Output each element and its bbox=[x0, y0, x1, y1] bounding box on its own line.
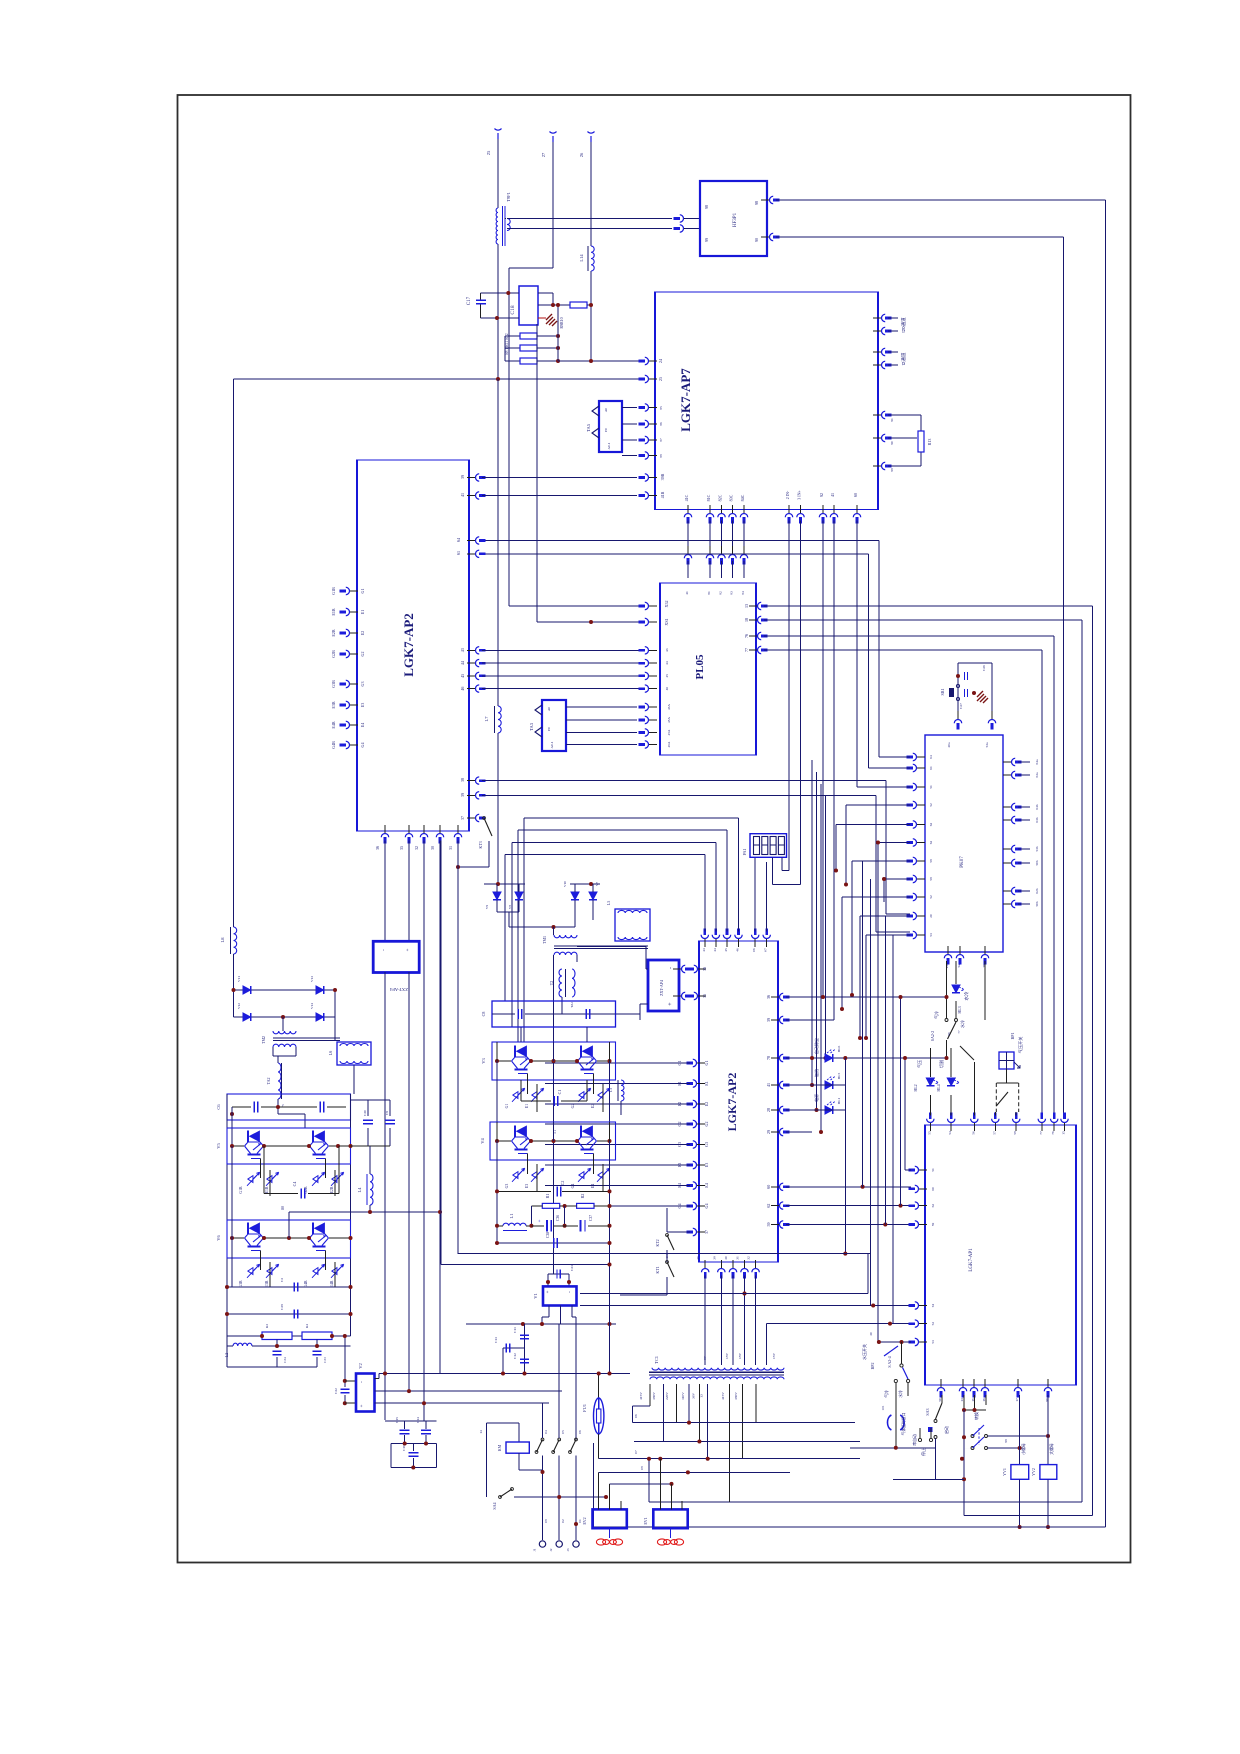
svg-text:HL6: HL6 bbox=[837, 1046, 841, 1053]
svg-text:RV1 R11 R12: RV1 R11 R12 bbox=[505, 333, 509, 354]
svg-text:t20通道: t20通道 bbox=[900, 317, 907, 333]
svg-text:24: 24 bbox=[658, 359, 663, 363]
svg-text:83C: 83C bbox=[729, 494, 734, 501]
svg-text:G1: G1 bbox=[704, 1061, 709, 1066]
svg-text:27: 27 bbox=[541, 152, 546, 157]
svg-text:C33: C33 bbox=[323, 1357, 327, 1363]
svg-text:+: + bbox=[406, 948, 411, 951]
svg-text:气体延时接口: 气体延时接口 bbox=[901, 1412, 906, 1435]
svg-text:26: 26 bbox=[579, 152, 584, 157]
svg-text:14: 14 bbox=[479, 1430, 483, 1434]
svg-text:56: 56 bbox=[971, 1131, 975, 1135]
svg-text:V3: V3 bbox=[481, 1058, 486, 1064]
svg-text:E3: E3 bbox=[704, 1163, 709, 1167]
svg-text:38: 38 bbox=[712, 1256, 716, 1260]
svg-text:57: 57 bbox=[992, 1131, 996, 1135]
svg-text:36: 36 bbox=[766, 995, 771, 999]
svg-text:气压开关: 气压开关 bbox=[1017, 1037, 1024, 1054]
svg-text:62: 62 bbox=[929, 841, 933, 845]
svg-text:30: 30 bbox=[869, 1332, 873, 1336]
svg-text:415V: 415V bbox=[721, 1392, 725, 1400]
svg-text:E4B: E4B bbox=[330, 1280, 334, 1287]
svg-text:V12: V12 bbox=[237, 1003, 241, 1009]
svg-text:82C: 82C bbox=[718, 494, 723, 501]
svg-text:41: 41 bbox=[460, 493, 465, 497]
svg-text:38: 38 bbox=[460, 778, 465, 782]
svg-text:04: 04 bbox=[544, 1430, 548, 1434]
svg-text:水冷: 水冷 bbox=[963, 991, 970, 1000]
svg-text:52: 52 bbox=[929, 803, 933, 807]
svg-text:41: 41 bbox=[685, 591, 689, 595]
svg-text:64b: 64b bbox=[1035, 804, 1039, 810]
svg-text:T2: T2 bbox=[549, 981, 554, 985]
svg-text:36V: 36V bbox=[691, 1393, 695, 1400]
svg-text:29: 29 bbox=[766, 1130, 771, 1134]
svg-text:35: 35 bbox=[702, 994, 707, 998]
svg-text:05: 05 bbox=[561, 1430, 565, 1434]
svg-text:C2: C2 bbox=[560, 1181, 565, 1186]
svg-text:V13: V13 bbox=[310, 976, 314, 982]
svg-text:电源: 电源 bbox=[813, 1094, 819, 1102]
svg-text:BP2: BP2 bbox=[870, 1363, 875, 1370]
svg-text:PK07: PK07 bbox=[960, 856, 965, 868]
svg-text:G2B: G2B bbox=[331, 650, 336, 658]
svg-text:07: 07 bbox=[764, 948, 768, 952]
svg-text:30: 30 bbox=[430, 846, 435, 850]
svg-text:KT2: KT2 bbox=[655, 1239, 660, 1246]
svg-text:50: 50 bbox=[938, 1398, 942, 1402]
svg-text:KT3: KT3 bbox=[478, 841, 483, 848]
svg-text:90: 90 bbox=[890, 441, 894, 445]
svg-text:13: 13 bbox=[960, 1398, 964, 1402]
svg-text:SA2-2: SA2-2 bbox=[930, 1031, 935, 1041]
svg-text:C39: C39 bbox=[280, 1304, 284, 1310]
svg-text:E1: E1 bbox=[704, 1081, 709, 1085]
svg-text:G3B: G3B bbox=[331, 680, 336, 688]
svg-text:44: 44 bbox=[665, 661, 669, 665]
svg-text:C37: C37 bbox=[589, 1215, 593, 1221]
svg-text:62: 62 bbox=[766, 1204, 771, 1208]
svg-text:C12: C12 bbox=[513, 1353, 517, 1359]
svg-text:64a: 64a bbox=[1035, 759, 1039, 765]
svg-text:18V: 18V bbox=[725, 1353, 729, 1360]
svg-text:98: 98 bbox=[704, 205, 709, 209]
svg-text:25: 25 bbox=[486, 150, 491, 155]
svg-text:59: 59 bbox=[766, 1223, 771, 1227]
svg-text:380V: 380V bbox=[652, 1392, 656, 1400]
svg-text:52: 52 bbox=[931, 1322, 935, 1326]
svg-text:G4B: G4B bbox=[304, 1280, 308, 1288]
svg-text:36: 36 bbox=[702, 967, 707, 971]
svg-text:53: 53 bbox=[931, 1340, 935, 1344]
svg-text:串自动: 串自动 bbox=[912, 1434, 917, 1446]
svg-text:45: 45 bbox=[665, 674, 669, 678]
svg-text:R4: R4 bbox=[305, 1324, 309, 1328]
svg-text:98: 98 bbox=[754, 201, 759, 205]
svg-text:PL05: PL05 bbox=[694, 654, 706, 680]
svg-text:HL1: HL1 bbox=[837, 1098, 841, 1105]
svg-text:HL2: HL2 bbox=[913, 1084, 918, 1091]
svg-text:L5: L5 bbox=[606, 901, 611, 905]
svg-text:30: 30 bbox=[724, 1256, 728, 1260]
svg-text:25: 25 bbox=[658, 377, 663, 381]
svg-text:60: 60 bbox=[931, 1187, 935, 1191]
svg-text:02: 02 bbox=[561, 1519, 565, 1523]
svg-text:C30: C30 bbox=[363, 1110, 367, 1116]
svg-text:41C: 41C bbox=[684, 494, 689, 501]
svg-text:气冷: 气冷 bbox=[884, 1390, 889, 1398]
svg-text:59: 59 bbox=[931, 1223, 935, 1227]
svg-text:V7: V7 bbox=[595, 882, 599, 887]
svg-text:08: 08 bbox=[544, 1519, 548, 1523]
svg-text:EV2: EV2 bbox=[582, 1517, 587, 1524]
svg-text:t2通道: t2通道 bbox=[900, 352, 907, 365]
svg-text:28: 28 bbox=[766, 1108, 771, 1112]
svg-text:54: 54 bbox=[948, 1131, 952, 1135]
svg-text:G4B: G4B bbox=[331, 741, 336, 749]
svg-text:R3: R3 bbox=[265, 1324, 269, 1328]
svg-text:2 IN-: 2 IN- bbox=[785, 490, 790, 499]
svg-text:39: 39 bbox=[460, 475, 465, 479]
svg-text:E4: E4 bbox=[360, 723, 365, 727]
svg-text:39: 39 bbox=[766, 1018, 771, 1022]
svg-text:G1: G1 bbox=[505, 1104, 509, 1109]
svg-text:C33: C33 bbox=[570, 1265, 574, 1271]
svg-text:E4B: E4B bbox=[331, 721, 336, 728]
svg-text:C3: C3 bbox=[280, 1278, 284, 1282]
svg-text:E2: E2 bbox=[360, 631, 365, 635]
svg-text:58: 58 bbox=[1013, 1131, 1017, 1135]
svg-text:LGK7-AP1: LGK7-AP1 bbox=[969, 1248, 974, 1272]
svg-text:99: 99 bbox=[1004, 1439, 1008, 1443]
svg-text:SA4: SA4 bbox=[492, 1502, 497, 1509]
svg-text:G3: G3 bbox=[704, 1142, 709, 1147]
svg-text:YV1: YV1 bbox=[1002, 1468, 1007, 1476]
svg-text:78: 78 bbox=[766, 1056, 771, 1060]
svg-text:61: 61 bbox=[931, 1304, 935, 1308]
svg-text:96: 96 bbox=[947, 1032, 951, 1036]
svg-text:15V: 15V bbox=[772, 1353, 776, 1360]
svg-text:HL3: HL3 bbox=[957, 1006, 962, 1013]
svg-text:C34: C34 bbox=[283, 1357, 287, 1363]
svg-text:81: 81 bbox=[707, 591, 711, 595]
svg-text:85: 85 bbox=[659, 406, 663, 410]
svg-text:61: 61 bbox=[929, 766, 933, 770]
svg-text:G2: G2 bbox=[704, 1122, 709, 1127]
svg-text:G1B: G1B bbox=[331, 587, 336, 595]
svg-text:84: 84 bbox=[741, 591, 745, 595]
svg-text:加热: 加热 bbox=[813, 1069, 819, 1077]
svg-text:C16: C16 bbox=[402, 1445, 406, 1451]
svg-text:V10: V10 bbox=[563, 881, 567, 887]
svg-text:110V: 110V bbox=[681, 1392, 685, 1400]
svg-text:60: 60 bbox=[766, 1185, 771, 1189]
svg-text:46: 46 bbox=[460, 687, 465, 691]
svg-text:31: 31 bbox=[736, 1256, 740, 1260]
svg-text:A0: A0 bbox=[547, 707, 551, 712]
svg-text:84C: 84C bbox=[740, 494, 745, 501]
svg-text:L8: L8 bbox=[220, 937, 225, 943]
svg-text:35: 35 bbox=[696, 1256, 700, 1260]
svg-text:R9R10: R9R10 bbox=[559, 317, 564, 328]
svg-text:YV2: YV2 bbox=[1031, 1468, 1036, 1476]
svg-text:G4: G4 bbox=[571, 1184, 575, 1189]
svg-text:380V: 380V bbox=[734, 1392, 738, 1400]
svg-text:LGK7-AP2: LGK7-AP2 bbox=[401, 613, 416, 677]
svg-text:88: 88 bbox=[659, 454, 663, 458]
svg-text:E3: E3 bbox=[525, 1184, 529, 1188]
svg-text:C15: C15 bbox=[395, 1417, 399, 1423]
svg-text:水冷: 水冷 bbox=[898, 1390, 903, 1398]
svg-text:G2: G2 bbox=[360, 652, 365, 657]
svg-text:转换: 转换 bbox=[973, 1412, 979, 1420]
svg-text:41: 41 bbox=[766, 1083, 771, 1087]
svg-text:99: 99 bbox=[704, 238, 709, 242]
svg-text:415V: 415V bbox=[639, 1392, 643, 1400]
svg-text:R2: R2 bbox=[580, 1194, 585, 1199]
svg-text:TAl: TAl bbox=[570, 1002, 574, 1007]
svg-text:51: 51 bbox=[931, 1168, 935, 1172]
svg-text:C36: C36 bbox=[556, 1215, 560, 1221]
svg-text:TA5: TA5 bbox=[586, 423, 591, 432]
svg-text:45A: 45A bbox=[667, 717, 671, 723]
svg-text:小螺母: 小螺母 bbox=[1021, 1443, 1026, 1455]
svg-text:60: 60 bbox=[853, 493, 858, 497]
svg-text:91: 91 bbox=[890, 418, 894, 422]
svg-text:G3: G3 bbox=[505, 1184, 509, 1189]
svg-text:切割: 切割 bbox=[938, 1060, 944, 1068]
svg-text:45: 45 bbox=[460, 674, 465, 678]
svg-text:63a: 63a bbox=[1035, 772, 1039, 778]
svg-text:62b: 62b bbox=[1035, 888, 1039, 894]
svg-text:SB1: SB1 bbox=[940, 689, 945, 696]
svg-text:ZXT-AP4: ZXT-AP4 bbox=[659, 980, 664, 996]
svg-text:C14: C14 bbox=[416, 1417, 420, 1423]
svg-text:+: + bbox=[546, 1290, 551, 1293]
svg-text:X52: X52 bbox=[664, 601, 669, 608]
svg-text:G3B: G3B bbox=[239, 1280, 243, 1288]
svg-text:气压: 气压 bbox=[916, 1060, 922, 1068]
svg-text:E1B: E1B bbox=[265, 1186, 269, 1193]
svg-text:37: 37 bbox=[460, 816, 465, 820]
svg-text:L1: L1 bbox=[509, 1214, 514, 1219]
svg-text:C8: C8 bbox=[481, 1012, 486, 1017]
svg-text:BP1: BP1 bbox=[1010, 1033, 1015, 1040]
svg-text:V8: V8 bbox=[508, 905, 512, 910]
svg-text:PA1: PA1 bbox=[742, 849, 747, 856]
svg-text:E3: E3 bbox=[360, 703, 365, 707]
svg-text:46: 46 bbox=[736, 948, 740, 952]
svg-text:L4: L4 bbox=[357, 1187, 362, 1193]
svg-text:S A2-4: S A2-4 bbox=[887, 1356, 892, 1367]
svg-text:G3: G3 bbox=[360, 682, 365, 687]
svg-text:E4: E4 bbox=[591, 1184, 595, 1188]
svg-text:C6: C6 bbox=[216, 1104, 221, 1110]
svg-text:L3: L3 bbox=[609, 1088, 613, 1092]
svg-text:LGK7-AP2: LGK7-AP2 bbox=[725, 1073, 739, 1132]
svg-text:FU1: FU1 bbox=[582, 1404, 587, 1412]
svg-text:86: 86 bbox=[659, 422, 663, 426]
svg-text:XS1: XS1 bbox=[664, 618, 669, 625]
svg-text:43: 43 bbox=[665, 648, 669, 652]
svg-text:76: 76 bbox=[744, 634, 749, 638]
svg-text:39: 39 bbox=[460, 793, 465, 797]
svg-text:44: 44 bbox=[460, 661, 465, 665]
svg-text:101: 101 bbox=[881, 1405, 885, 1410]
svg-text:C17: C17 bbox=[467, 296, 472, 305]
svg-text:46A: 46A bbox=[667, 704, 671, 710]
svg-text:46: 46 bbox=[665, 687, 669, 691]
svg-text:06: 06 bbox=[752, 948, 756, 952]
svg-text:17: 17 bbox=[1015, 1398, 1019, 1402]
svg-text:08: 08 bbox=[640, 1466, 644, 1470]
svg-text:77: 77 bbox=[1039, 1131, 1043, 1135]
svg-text:81C: 81C bbox=[706, 494, 711, 501]
svg-text:8V: 8V bbox=[703, 1355, 707, 1360]
svg-text:ZXT-AP4: ZXT-AP4 bbox=[389, 987, 408, 992]
svg-text:C1: C1 bbox=[557, 1090, 562, 1095]
svg-text:E3B: E3B bbox=[331, 701, 336, 708]
svg-text:J2: J2 bbox=[549, 1548, 553, 1551]
svg-text:35: 35 bbox=[399, 846, 404, 850]
svg-text:46A: 46A bbox=[667, 741, 671, 747]
svg-text:+: + bbox=[538, 1219, 543, 1222]
svg-text:+: + bbox=[360, 1404, 365, 1407]
svg-text:16: 16 bbox=[982, 1398, 986, 1402]
svg-text:20: 20 bbox=[929, 914, 933, 918]
svg-text:E2: E2 bbox=[591, 1104, 595, 1108]
svg-text:V14: V14 bbox=[310, 1003, 314, 1009]
svg-text:18: 18 bbox=[744, 618, 749, 622]
svg-text:停止: 停止 bbox=[920, 1448, 926, 1456]
svg-text:5a: 5a bbox=[957, 964, 961, 968]
svg-text:41: 41 bbox=[830, 493, 835, 497]
svg-text:V1: V1 bbox=[533, 1293, 538, 1299]
svg-text:220V: 220V bbox=[665, 1392, 669, 1400]
svg-text:R13: R13 bbox=[927, 439, 932, 446]
svg-text:45: 45 bbox=[724, 948, 728, 952]
svg-text:KM: KM bbox=[497, 1444, 502, 1451]
svg-text:G2: G2 bbox=[571, 1104, 575, 1109]
svg-text:TM1: TM1 bbox=[542, 936, 547, 944]
svg-text:R1: R1 bbox=[545, 1194, 550, 1199]
svg-text:C26: C26 bbox=[982, 665, 986, 671]
svg-text:44: 44 bbox=[713, 948, 717, 952]
svg-text:大螺母: 大螺母 bbox=[1049, 1443, 1054, 1455]
svg-text:G1B: G1B bbox=[239, 1186, 243, 1194]
svg-text:P0: P0 bbox=[604, 428, 608, 432]
svg-text:LGK7-AP7: LGK7-AP7 bbox=[678, 368, 693, 432]
svg-text:63b: 63b bbox=[1035, 817, 1039, 823]
svg-text:C38: C38 bbox=[546, 1232, 550, 1238]
svg-text:36: 36 bbox=[375, 846, 380, 850]
svg-text:E2: E2 bbox=[704, 1102, 709, 1106]
svg-text:76: 76 bbox=[1051, 1131, 1055, 1135]
svg-text:P0: P0 bbox=[547, 727, 551, 731]
svg-text:TA2: TA2 bbox=[266, 1077, 271, 1084]
svg-text:L7: L7 bbox=[484, 716, 489, 722]
svg-text:62: 62 bbox=[931, 1204, 935, 1208]
svg-text:V6: V6 bbox=[216, 1235, 221, 1241]
svg-text:C27: C27 bbox=[959, 703, 963, 709]
svg-text:J3: J3 bbox=[566, 1548, 570, 1551]
svg-text:T9F1: T9F1 bbox=[506, 192, 511, 202]
svg-text:自动除尘: 自动除尘 bbox=[813, 1038, 819, 1054]
svg-text:C32: C32 bbox=[334, 1388, 338, 1394]
svg-text:53a: 53a bbox=[985, 742, 989, 748]
svg-text:59: 59 bbox=[929, 877, 933, 881]
svg-text:43: 43 bbox=[702, 948, 706, 952]
svg-text:41B: 41B bbox=[660, 491, 665, 498]
svg-text:E1B: E1B bbox=[331, 608, 336, 615]
svg-text:HL5: HL5 bbox=[837, 1073, 841, 1080]
svg-text:06: 06 bbox=[578, 1430, 582, 1434]
svg-text:90: 90 bbox=[754, 238, 759, 242]
svg-text:31: 31 bbox=[448, 846, 453, 850]
svg-text:77: 77 bbox=[744, 648, 749, 652]
svg-text:32: 32 bbox=[747, 1256, 751, 1260]
svg-text:C4: C4 bbox=[292, 1182, 297, 1187]
svg-text:83: 83 bbox=[730, 591, 734, 595]
svg-text:53: 53 bbox=[929, 933, 933, 937]
svg-text:64: 64 bbox=[929, 755, 933, 759]
svg-text:E2B: E2B bbox=[331, 629, 336, 636]
svg-text:TM2: TM2 bbox=[261, 1036, 266, 1044]
svg-text:TA3: TA3 bbox=[529, 722, 534, 731]
svg-text:E4: E4 bbox=[704, 1183, 709, 1187]
svg-text:20a: 20a bbox=[947, 742, 951, 748]
svg-text:C9: C9 bbox=[385, 1111, 389, 1115]
svg-text:61: 61 bbox=[456, 551, 461, 555]
svg-text:HL4: HL4 bbox=[936, 1084, 941, 1091]
svg-text:TC1: TC1 bbox=[654, 1356, 659, 1364]
svg-text:39B: 39B bbox=[660, 473, 665, 480]
svg-text:3 IN+: 3 IN+ bbox=[797, 490, 802, 500]
svg-text:V2: V2 bbox=[358, 1363, 363, 1369]
svg-text:52: 52 bbox=[929, 895, 933, 899]
svg-text:C13: C13 bbox=[494, 1337, 498, 1343]
svg-text:HF3P1: HF3P1 bbox=[733, 212, 738, 227]
svg-text:87: 87 bbox=[659, 438, 663, 442]
svg-text:水压开关: 水压开关 bbox=[861, 1344, 867, 1360]
svg-text:L6: L6 bbox=[328, 1051, 333, 1055]
svg-text:07: 07 bbox=[634, 1450, 638, 1454]
svg-text:C18: C18 bbox=[510, 305, 516, 314]
svg-text:50b: 50b bbox=[1035, 860, 1039, 866]
svg-text:43: 43 bbox=[460, 648, 465, 652]
svg-text:59: 59 bbox=[929, 859, 933, 863]
svg-text:45A: 45A bbox=[667, 729, 671, 735]
svg-text:92: 92 bbox=[819, 493, 824, 497]
svg-text:A0.1: A0.1 bbox=[550, 741, 554, 748]
svg-text:E2B: E2B bbox=[330, 1186, 334, 1193]
svg-text:62: 62 bbox=[929, 823, 933, 827]
svg-text:55: 55 bbox=[927, 1131, 931, 1135]
svg-text:E1: E1 bbox=[525, 1104, 529, 1108]
svg-text:50b: 50b bbox=[1035, 901, 1039, 907]
svg-text:13: 13 bbox=[744, 604, 749, 608]
svg-text:G4: G4 bbox=[360, 743, 365, 748]
svg-text:L14: L14 bbox=[579, 254, 584, 262]
svg-text:64: 64 bbox=[456, 538, 461, 542]
svg-text:L2: L2 bbox=[224, 1353, 229, 1357]
svg-text:V11: V11 bbox=[237, 976, 241, 982]
svg-text:V9: V9 bbox=[485, 905, 489, 910]
svg-text:51: 51 bbox=[929, 785, 933, 789]
svg-text:80: 80 bbox=[281, 1206, 285, 1210]
svg-text:82: 82 bbox=[719, 591, 723, 595]
svg-text:J1: J1 bbox=[533, 1548, 537, 1551]
